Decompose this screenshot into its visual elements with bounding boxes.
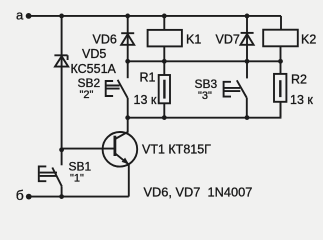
junction bottom col1 <box>59 194 64 199</box>
junction top col1 <box>59 14 64 19</box>
svg-text:R1: R1 <box>140 71 156 85</box>
svg-text:R2: R2 <box>291 73 307 87</box>
wire mid bus <box>128 60 281 62</box>
junction mid col5 <box>278 59 283 64</box>
wire col1 vertical <box>61 16 63 150</box>
pushbutton SB1 <box>39 150 62 197</box>
junction low col3 <box>162 115 167 120</box>
junction low col4 <box>245 115 250 120</box>
svg-text:КС551А: КС551А <box>71 62 117 76</box>
svg-text:VD6: VD6 <box>93 33 117 47</box>
svg-text:"3": "3" <box>198 90 212 102</box>
svg-text:"2": "2" <box>80 89 94 101</box>
wire R2 bottom corner <box>280 102 282 118</box>
svg-text:а: а <box>16 7 24 22</box>
svg-text:"1": "1" <box>70 173 84 185</box>
junction base node <box>59 147 64 152</box>
node б terminal <box>26 194 32 200</box>
svg-text:K2: K2 <box>301 33 316 47</box>
wire col2 vertical upper <box>127 16 129 61</box>
resistor R2 <box>274 61 286 117</box>
svg-text:VD5: VD5 <box>82 47 106 61</box>
node a terminal <box>26 13 32 19</box>
svg-text:13 к: 13 к <box>134 93 157 107</box>
pushbutton SB2 <box>106 61 128 117</box>
junction mid col4 <box>245 59 250 64</box>
diode VD6 <box>121 33 134 45</box>
diode VD7 <box>241 16 254 61</box>
zener diode VD5 <box>54 55 68 66</box>
junction low col2 <box>125 115 130 120</box>
wire bottom bus <box>29 196 129 198</box>
transistor VT1 <box>103 118 138 197</box>
svg-text:VD7: VD7 <box>216 33 240 47</box>
wire low bus <box>128 117 281 119</box>
svg-text:SB1: SB1 <box>69 160 92 174</box>
wire base <box>62 148 115 150</box>
junction mid col3 <box>162 59 167 64</box>
svg-text:VT1 КТ815Г: VT1 КТ815Г <box>142 143 211 157</box>
svg-text:VD6, VD7 1N4007: VD6, VD7 1N4007 <box>144 185 253 200</box>
svg-text:SB3: SB3 <box>195 77 218 91</box>
resistor R1 <box>159 61 170 117</box>
svg-text:13 к: 13 к <box>290 93 313 107</box>
svg-text:K1: K1 <box>186 33 201 47</box>
pushbutton SB3 <box>224 61 247 117</box>
svg-text:SB2: SB2 <box>78 76 101 90</box>
junction top col2 <box>125 14 130 19</box>
relay K1 <box>148 16 182 61</box>
wire top bus <box>29 15 281 17</box>
junction mid col2 <box>125 59 130 64</box>
relay K2 <box>263 16 298 61</box>
junction top col3 <box>162 14 167 19</box>
junction top col4 <box>245 14 250 19</box>
svg-text:б: б <box>16 187 24 203</box>
